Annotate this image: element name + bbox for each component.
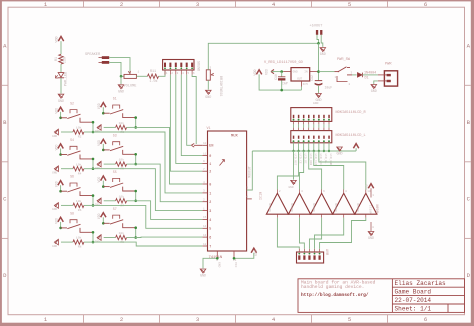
wire PWR pin2 to GND <box>374 81 378 84</box>
svg-text:S4: S4 <box>70 138 74 142</box>
power VDD arrow (regulator output) <box>254 69 262 75</box>
svg-text:12: 12 <box>203 243 207 246</box>
svg-text:handheld gaming device.: handheld gaming device. <box>301 284 364 290</box>
wire resistor R7 to node <box>127 200 136 202</box>
svg-text:VDD: VDD <box>265 69 269 75</box>
svg-text:GND: GND <box>200 275 206 279</box>
wire sound pin3 to MUX S1 <box>176 75 203 164</box>
wire +5VOUT pin2 to GND <box>321 35 323 47</box>
resistor R5 10k <box>116 158 127 171</box>
svg-text:S6: S6 <box>70 175 74 179</box>
svg-text:14: 14 <box>203 225 207 228</box>
ground (+5VOUT) <box>320 48 326 58</box>
wire buffer 4 to AVR header <box>315 218 344 249</box>
svg-text:0: 0 <box>209 155 211 159</box>
power VDD arrow (S5) <box>97 176 106 182</box>
svg-text:CAP: CAP <box>282 82 288 86</box>
svg-text:10k: 10k <box>76 126 82 130</box>
svg-text:NOKIA5110LCD_R: NOKIA5110LCD_R <box>336 111 367 115</box>
svg-text:VDD: VDD <box>54 108 58 114</box>
wire LED to GND <box>60 78 62 94</box>
svg-text:GND: GND <box>58 100 64 104</box>
svg-text:R5: R5 <box>120 168 124 171</box>
svg-text:SPEAKER: SPEAKER <box>85 53 101 57</box>
wire buffer 1 to AVR header <box>277 218 299 249</box>
svg-text:NOKIA5110LCD_L: NOKIA5110LCD_L <box>336 134 366 138</box>
ground (pull-down S3) <box>95 161 101 170</box>
switch S6 <box>61 175 93 196</box>
svg-text:10k: 10k <box>76 236 82 240</box>
ground (brightness) <box>205 90 211 100</box>
power VDD arrow (S2) <box>54 107 63 113</box>
svg-text:5: 5 <box>209 228 211 232</box>
resistor R11 1.0k <box>148 70 159 84</box>
power VDD arrow (IC10P) <box>366 184 374 190</box>
svg-text:GND: GND <box>52 245 57 248</box>
wire VDD down to gnd rail <box>259 74 301 90</box>
wire resistor R5 to node <box>127 163 136 165</box>
wire MUX output to LCD bus <box>247 151 253 190</box>
wire button row 4 to MUX input <box>93 169 202 211</box>
svg-text:VDD: VDD <box>54 218 58 224</box>
svg-text:LCD_CE: LCD_CE <box>299 154 302 164</box>
svg-text:+5VOUT: +5VOUT <box>310 25 324 29</box>
svg-text:V1: V1 <box>207 127 211 131</box>
svg-text:0: 0 <box>209 183 211 187</box>
LED PWR_LED <box>55 72 68 86</box>
wire speaker pin1 to volume wiper <box>109 58 130 73</box>
svg-text:15: 15 <box>203 216 207 219</box>
svg-text:VDD: VDD <box>54 181 58 187</box>
ground (pull-down S5) <box>95 198 101 207</box>
net arrow VDD (left of regulator) <box>265 69 275 75</box>
resistor R7 10k <box>116 194 127 207</box>
svg-text:10k: 10k <box>119 121 125 125</box>
resistor R9 10k <box>116 231 127 244</box>
resistor R1 220 <box>55 54 68 64</box>
ground (PWR_LED) <box>58 94 64 104</box>
wire R11 to sound header pin1 <box>159 71 166 76</box>
svg-text:3: 3 <box>196 316 199 323</box>
ground (MUX) <box>200 269 206 279</box>
junction node S3 <box>134 163 137 166</box>
svg-text:2: 2 <box>209 201 211 205</box>
switch S4 <box>61 138 93 159</box>
wire button row 8 to MUX input <box>93 242 202 246</box>
wire VDD to bus row <box>355 148 357 151</box>
wire LCD col1 to ground <box>293 151 295 180</box>
svg-text:IC5: IC5 <box>303 83 309 86</box>
wire LCD col to buffer 5 <box>319 151 366 190</box>
IC10P power pin <box>368 188 374 231</box>
wire gnd to resistor R7 <box>104 200 116 202</box>
svg-text:GND: GND <box>293 70 298 73</box>
connector NOKIA5110LCD_R <box>291 108 367 122</box>
junction switch out S4 <box>92 158 95 161</box>
power VDD arrow (MUX) <box>251 248 258 256</box>
AVR header pin stubs <box>299 249 319 252</box>
junction switch left S1 <box>102 112 105 115</box>
svg-text:GND: GND <box>336 153 342 157</box>
svg-text:S2: S2 <box>70 101 74 105</box>
svg-text:2: 2 <box>209 171 211 175</box>
wire MUX VCC pin to VDD <box>234 253 254 258</box>
trimmer VOLUME <box>124 71 140 89</box>
switch S2 <box>61 101 93 122</box>
wire resistor R9 to node <box>127 237 136 239</box>
MUX bottom VCC pin <box>233 251 237 268</box>
wire VDD to switch S2 <box>60 112 62 118</box>
resistor R6 10k <box>73 199 84 212</box>
switch S1 <box>103 97 135 118</box>
wire VDD to switch S6 <box>60 185 62 191</box>
junction switch left S5 <box>102 185 105 188</box>
svg-text:V_REG_LD1117V50_GO: V_REG_LD1117V50_GO <box>264 61 303 65</box>
svg-text:S3: S3 <box>113 133 117 137</box>
svg-text:PWR: PWR <box>385 63 392 67</box>
wire regulator out to VDD arrow <box>272 71 284 73</box>
svg-text:GND: GND <box>52 208 57 211</box>
svg-text:GND: GND <box>52 172 57 175</box>
svg-text:3: 3 <box>209 210 211 214</box>
svg-text:PWR_SW: PWR_SW <box>337 58 351 62</box>
power VDD arrow (S1) <box>97 103 106 109</box>
svg-text:IC10: IC10 <box>260 192 264 200</box>
svg-text:AVR: AVR <box>324 249 328 255</box>
ground (volume pot) <box>118 85 124 95</box>
wire switch S2 to node <box>92 122 94 132</box>
wire buffer 5 to AVR header <box>320 218 366 249</box>
svg-text:S8: S8 <box>70 211 74 215</box>
ground (pull-down S8) <box>52 239 58 248</box>
svg-text:IC10P: IC10P <box>368 205 371 214</box>
junction switch left S4 <box>59 153 62 156</box>
switch S5 <box>103 170 135 191</box>
wire gnd to resistor R4 <box>61 168 73 170</box>
ground (pull-down S4) <box>52 166 58 175</box>
svg-text:5: 5 <box>348 1 351 8</box>
wire MUX GND pin to ground <box>203 258 217 268</box>
svg-text:GND: GND <box>320 53 326 57</box>
junction switch left S2 <box>59 117 62 120</box>
wire switch S6 to node <box>92 196 94 206</box>
svg-text:7: 7 <box>209 245 211 249</box>
wire switch S4 to node <box>92 159 94 169</box>
frame column labels 1-6 <box>44 1 427 323</box>
wire resistor R8 to node <box>84 241 93 243</box>
switch S8 <box>61 211 93 232</box>
svg-text:PWR_LED: PWR_LED <box>65 72 69 86</box>
wire LCD col to buffer 4 <box>314 151 344 190</box>
wire VDD to R1 <box>60 41 62 54</box>
wire buffer 3 to AVR header <box>309 218 321 249</box>
wire gnd to resistor R5 <box>104 163 116 165</box>
regulator left pin <box>283 71 291 73</box>
resistor R8 10k <box>73 236 84 249</box>
MUX EN pin arrow glyph <box>191 144 202 148</box>
capacitor C10 <box>274 72 288 91</box>
connector AVR header <box>297 249 329 263</box>
svg-text:S5: S5 <box>113 170 117 174</box>
power VDD arrow (S3) <box>97 139 106 145</box>
svg-text:VDD: VDD <box>97 177 101 183</box>
svg-text:GND: GND <box>205 96 211 100</box>
wire switch S3 to node <box>135 154 137 164</box>
buffer output stubs (top) <box>277 190 365 194</box>
svg-text:4050N: 4050N <box>357 203 360 212</box>
wire switch to diode <box>352 74 357 76</box>
wire sound pin4 to MUX S0 <box>181 75 202 156</box>
svg-text:GND: GND <box>218 262 221 268</box>
wire switch S7 to node <box>135 228 137 238</box>
buffer gate IC10B 4050N <box>288 190 310 214</box>
svg-text:R7: R7 <box>120 204 124 207</box>
svg-text:4050N: 4050N <box>313 203 316 212</box>
MUX left pin stubs <box>202 142 213 249</box>
svg-text:LCD_RST: LCD_RST <box>294 154 297 166</box>
junction node S6 <box>92 204 95 207</box>
svg-text:R4: R4 <box>78 172 82 175</box>
wire gnd to resistor R9 <box>104 237 116 239</box>
svg-text:R11: R11 <box>150 70 156 74</box>
connector NOKIA5110LCD_L <box>291 131 366 143</box>
wire button row 2 to MUX input <box>93 132 202 193</box>
svg-text:SOUND: SOUND <box>196 61 200 71</box>
svg-text:GND: GND <box>313 102 319 105</box>
resistor R4 10k <box>73 162 84 175</box>
wire node to GND <box>120 76 122 84</box>
wire button row 7 to MUX input <box>136 236 203 238</box>
svg-text:R2: R2 <box>78 136 82 139</box>
wire button row 1 to MUX input <box>136 127 203 184</box>
svg-text:VDD: VDD <box>56 36 60 42</box>
junction switch left S7 <box>102 222 105 225</box>
junction switch out S6 <box>92 194 95 197</box>
power VDD arrow (S4) <box>54 144 63 150</box>
wire to power switch <box>319 71 335 73</box>
svg-text:10: 10 <box>203 142 207 145</box>
junction node S4 <box>92 167 95 170</box>
svg-text:22-07-2014: 22-07-2014 <box>395 297 432 304</box>
regulator bottom pin <box>300 81 302 87</box>
wire brightness bottom to GND <box>207 80 209 89</box>
svg-text:IN: IN <box>304 70 308 73</box>
frame row labels A-D <box>3 43 471 280</box>
svg-text:VDD: VDD <box>54 145 58 151</box>
svg-text:VDD: VDD <box>97 140 101 146</box>
junction switch left S6 <box>59 190 62 193</box>
wire VDD to switch S5 <box>102 181 104 187</box>
svg-text:GND: GND <box>289 186 294 189</box>
wire volume to R11 <box>136 75 147 77</box>
wire gnd to resistor R3 <box>104 126 116 128</box>
wire switch S1 to node <box>135 118 137 128</box>
power VDD arrow (S7) <box>97 213 106 219</box>
svg-text:1: 1 <box>209 192 211 196</box>
wire resistor R2 to node <box>84 131 93 133</box>
svg-text:S7: S7 <box>113 207 117 211</box>
MUX output pin right <box>247 187 252 191</box>
junction node S5 <box>134 200 137 203</box>
wire regulator bottom pin <box>300 87 302 91</box>
wire R1 to LED <box>60 64 62 72</box>
svg-text:10k: 10k <box>119 194 125 198</box>
resistor R2 10k <box>73 126 84 139</box>
title block description text <box>301 280 376 291</box>
svg-text:Sheet: 1/1: Sheet: 1/1 <box>395 306 432 313</box>
svg-text:Game Board: Game Board <box>395 289 432 296</box>
svg-text:4050N: 4050N <box>291 203 294 212</box>
bus row junctions <box>292 150 330 152</box>
wires LCD_L down to bus row <box>294 143 329 151</box>
net labels LCD signals <box>294 154 332 166</box>
diode D1 1N4004 <box>357 72 376 81</box>
svg-text:13: 13 <box>203 234 207 237</box>
wires LCD_R to LCD_L <box>294 124 329 127</box>
wire VDD to switch S3 <box>102 144 104 150</box>
wire C12 to GND <box>318 86 320 93</box>
svg-text:VOLUME: VOLUME <box>124 85 137 89</box>
frame row tick marks <box>2 85 471 238</box>
connector +5VOUT <box>316 30 323 35</box>
junction switch out S5 <box>134 190 137 193</box>
svg-text:R8: R8 <box>78 246 82 249</box>
junction switch out S3 <box>134 153 137 156</box>
junction node S2 <box>92 131 95 134</box>
wire VDD to switch S8 <box>60 222 62 228</box>
wire resistor R6 to node <box>84 204 93 206</box>
frame column tick marks <box>84 1 388 322</box>
op IC V1 MUX box <box>207 127 247 260</box>
ground (LCD) <box>336 147 342 157</box>
svg-text:6: 6 <box>424 1 427 8</box>
svg-text:1: 1 <box>209 163 211 167</box>
svg-text:OUT: OUT <box>297 77 302 80</box>
svg-text:11: 11 <box>203 152 207 155</box>
wire sound pin5 to MUX EN <box>187 75 191 146</box>
title block frame <box>298 279 465 313</box>
wire brightness top to +5V rail <box>208 43 318 70</box>
svg-text:4050N: 4050N <box>335 203 338 212</box>
svg-text:Elias Zacarias: Elias Zacarias <box>395 280 447 287</box>
svg-text:MUX: MUX <box>231 135 239 139</box>
resistor R3 10k <box>116 121 127 134</box>
svg-text:220: 220 <box>64 57 68 63</box>
svg-text:4050N: 4050N <box>376 204 380 214</box>
power VDD arrow (S6) <box>54 181 63 187</box>
svg-text:GND: GND <box>118 90 124 94</box>
wire gnd to resistor R2 <box>61 131 73 133</box>
capacitor C12 10uF <box>310 75 332 89</box>
svg-text:GND: GND <box>371 90 377 94</box>
svg-text:6: 6 <box>209 237 211 241</box>
wire LCD col to buffer 2 <box>300 151 304 190</box>
wire resistor R3 to node <box>127 126 136 128</box>
svg-text:1.0k: 1.0k <box>149 79 157 84</box>
ground (IC10P) <box>368 232 374 242</box>
wire sound pin2 to MUX S2 <box>170 75 202 172</box>
svg-text:10k: 10k <box>119 158 125 162</box>
junction node S1 <box>134 126 137 129</box>
buffer gate IC10E 4050N <box>355 190 377 214</box>
power net VDD arrow (PWR_LED chain) <box>56 36 64 42</box>
ground (pull-down S1) <box>95 125 101 134</box>
switch S7 <box>103 207 135 228</box>
wire VDD to switch S4 <box>60 149 62 155</box>
wire VDD to switch S7 <box>102 217 104 223</box>
MUX select glyph <box>220 160 225 166</box>
junction speaker gnd node <box>120 75 123 78</box>
wire switch S5 to node <box>135 191 137 201</box>
bus row horizontal <box>252 150 356 152</box>
svg-text:VDD: VDD <box>97 103 101 109</box>
connector PWR <box>378 63 398 87</box>
svg-text:VDD: VDD <box>97 213 101 219</box>
svg-text:C10: C10 <box>274 74 278 80</box>
svg-text:R3: R3 <box>120 131 124 134</box>
svg-text:5: 5 <box>348 316 351 323</box>
svg-text:10uF: 10uF <box>325 85 333 89</box>
ground (PWR) <box>371 85 377 95</box>
wire regulator in vertical (+5 node) <box>318 43 320 80</box>
svg-text:MUXOUT: MUXOUT <box>248 166 252 178</box>
junction switch out S2 <box>92 121 95 124</box>
regulator right pin <box>310 71 319 73</box>
sound header pin stubs <box>165 70 195 75</box>
junction switch out S1 <box>134 116 137 119</box>
svg-text:VDD: VDD <box>366 184 369 190</box>
wire buffer 2 to AVR header <box>300 218 305 249</box>
svg-text:LCD_CLK: LCD_CLK <box>314 154 317 166</box>
svg-text:C12: C12 <box>310 75 314 81</box>
wire LCD col to buffer 1 <box>277 151 298 190</box>
junction regulator in <box>317 70 320 73</box>
buffer gate IC10C 4050N <box>311 190 333 214</box>
svg-text:BRIGHTNESS: BRIGHTNESS <box>218 76 222 96</box>
wire gnd to resistor R6 <box>61 204 73 206</box>
wire button row 5 to MUX input <box>136 201 203 220</box>
svg-text:D1: D1 <box>365 77 369 81</box>
svg-text:10k: 10k <box>76 199 82 203</box>
svg-text:VCC: VCC <box>234 262 237 268</box>
MUX bottom GND pin <box>216 251 220 268</box>
connector SOUND header box <box>163 60 200 72</box>
svg-text:4050N: 4050N <box>269 203 272 212</box>
junction cap C10 top <box>280 70 283 73</box>
junction switch out S8 <box>92 231 95 234</box>
svg-text:LCD_DIN: LCD_DIN <box>309 154 312 166</box>
svg-text:R6: R6 <box>78 209 82 212</box>
wire button row 3 to MUX input <box>136 164 203 202</box>
svg-text:4: 4 <box>209 219 211 223</box>
wire speaker pin2 to gnd/pot node <box>109 62 123 76</box>
svg-text:6: 6 <box>424 316 427 323</box>
junction node S7 <box>134 236 137 239</box>
svg-text:LCD_GND: LCD_GND <box>329 154 332 166</box>
LCD_L lower pin stubs <box>294 128 329 131</box>
wire VDD to switch S1 <box>102 107 104 113</box>
speaker connector SPEAKER <box>99 56 110 64</box>
svg-text:VDD: VDD <box>254 69 258 75</box>
svg-text:R1: R1 <box>55 57 59 61</box>
ground (C12) <box>315 94 321 104</box>
buffer gate IC10A 4050N <box>266 190 288 214</box>
wire +5VOUT pin1 down to rail <box>317 35 319 44</box>
svg-text:10k: 10k <box>119 231 125 235</box>
junction MUX gnd <box>216 257 219 260</box>
wire switch S8 to node <box>92 232 94 242</box>
ground (LCD col1) <box>289 180 297 189</box>
